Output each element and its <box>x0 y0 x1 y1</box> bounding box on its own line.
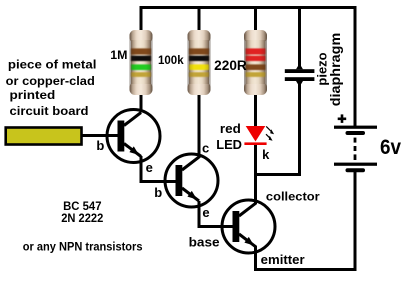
svg-text:or any NPN transistors: or any NPN transistors <box>23 241 143 253</box>
svg-text:b: b <box>96 138 104 153</box>
svg-text:BC 547: BC 547 <box>63 201 101 213</box>
svg-text:base: base <box>189 234 220 249</box>
svg-text:LED: LED <box>216 137 242 152</box>
svg-text:circuit board: circuit board <box>10 104 89 118</box>
svg-text:emitter: emitter <box>261 253 305 267</box>
svg-text:220R: 220R <box>214 58 247 73</box>
svg-text:diaphragm: diaphragm <box>328 33 343 107</box>
svg-text:red: red <box>220 121 241 136</box>
svg-text:piece of metal: piece of metal <box>8 58 97 72</box>
svg-text:e: e <box>202 205 209 220</box>
svg-text:e: e <box>146 160 153 175</box>
svg-text:1M: 1M <box>110 48 127 62</box>
svg-text:100k: 100k <box>158 53 184 67</box>
svg-text:k: k <box>262 147 270 162</box>
svg-text:collector: collector <box>266 189 320 203</box>
svg-text:b: b <box>154 185 162 200</box>
svg-text:2N 2222: 2N 2222 <box>61 213 103 225</box>
svg-text:6v: 6v <box>380 134 401 159</box>
svg-text:c: c <box>202 140 209 155</box>
svg-text:printed: printed <box>10 88 56 102</box>
svg-text:or copper-clad: or copper-clad <box>6 74 95 88</box>
